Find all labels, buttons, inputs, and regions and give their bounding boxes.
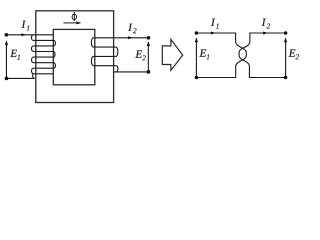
label E1 (schematic) <box>199 49 206 56</box>
current arrow I2 on top-right wire <box>128 36 133 39</box>
primary winding (left leg) rungs <box>6 35 53 74</box>
wire: bottom-right of schematic <box>249 77 285 79</box>
transformer core inner window rectangle <box>53 29 95 84</box>
current arrow I1 (schematic) <box>211 32 216 35</box>
label I1 <box>22 21 26 28</box>
primary winding left-side arcs <box>31 35 33 74</box>
label I2 (schematic) <box>262 19 266 26</box>
label I1 (schematic) <box>211 19 215 26</box>
label I2 <box>128 24 132 31</box>
flux arrow <box>64 21 82 24</box>
terminal dot schematic bottom-right <box>284 76 288 80</box>
current arrow I2 (schematic) <box>263 32 268 35</box>
secondary winding (right leg) rungs <box>93 38 148 66</box>
current arrow I1 on top-left wire <box>21 33 26 36</box>
terminal dot schematic top-left <box>195 31 199 35</box>
voltage arrow E1 (schematic) <box>195 37 198 77</box>
label E1 <box>10 50 17 57</box>
wire: top-right of schematic <box>250 32 286 34</box>
terminal dot bottom-left <box>5 77 9 81</box>
wire: bottom-left of schematic <box>196 77 235 79</box>
terminal dot top-left <box>5 33 9 37</box>
label E2 (schematic) <box>289 49 296 56</box>
wire: top-left of schematic <box>196 32 235 34</box>
flux label phi <box>72 12 76 21</box>
terminal dot schematic bottom-left <box>195 76 199 80</box>
coupled coils twist symbol: right conductor <box>239 33 250 79</box>
voltage arrow E2 (schematic) <box>284 37 287 77</box>
terminal dot top-right <box>147 36 151 40</box>
secondary winding left-side arcs <box>91 38 93 66</box>
transformer core outer rectangle <box>36 11 114 103</box>
wire: bottom-left lead <box>7 77 35 79</box>
terminal dot bottom-right <box>147 70 151 74</box>
coupled coils twist symbol: left conductor <box>236 33 247 79</box>
primary winding right-side arcs <box>53 40 55 68</box>
voltage arrow E2 <box>147 41 150 72</box>
big hollow arrow <box>162 39 182 70</box>
voltage arrow E1 <box>5 40 8 78</box>
secondary winding right-side arcs <box>116 47 118 72</box>
terminal dot schematic top-right <box>284 31 288 35</box>
primary bottom connector arc <box>33 74 35 79</box>
label E2 <box>135 50 142 57</box>
wire: bottom-right lead <box>114 71 149 73</box>
